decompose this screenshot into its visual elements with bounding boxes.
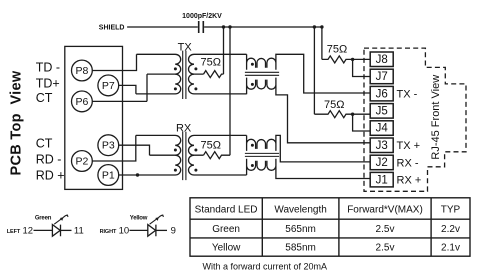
choke RX upper coil and wire RX- to J2 bbox=[247, 135, 371, 162]
svg-text:With a forward current of 20mA: With a forward current of 20mA bbox=[203, 262, 328, 272]
choke RX lower coil and wire RX+ to J1 bbox=[247, 159, 371, 179]
label PCB Top View bbox=[9, 70, 25, 175]
resistor 75ohm TX termination bbox=[204, 71, 224, 78]
wire riser V2 to RX termination bbox=[229, 27, 231, 155]
wire LED D1 cathode bbox=[61, 229, 72, 231]
transformer TX primary lower winding bbox=[136, 74, 181, 94]
polarity dot choke TX lower bbox=[251, 83, 254, 86]
LED D2 pin label RIGHT 10 bbox=[100, 226, 130, 237]
svg-text:RX -: RX - bbox=[397, 157, 419, 169]
svg-text:P2: P2 bbox=[75, 156, 88, 168]
node junction bus-V4 bbox=[320, 25, 323, 28]
net label TX+ bbox=[397, 140, 421, 152]
table header text bbox=[195, 204, 461, 215]
pin P7 bbox=[98, 75, 119, 96]
node junction bus-V1 bbox=[222, 25, 225, 28]
value label 75ohm J5 bbox=[324, 99, 344, 111]
label SHIELD bbox=[99, 25, 125, 32]
svg-text:LEFT: LEFT bbox=[7, 229, 21, 235]
LED D2 arrow bbox=[150, 215, 164, 224]
table LED specifications bbox=[190, 198, 470, 256]
wire P8 to TX primary top bbox=[92, 54, 136, 70]
pin label RD+ bbox=[36, 169, 65, 183]
svg-text:9: 9 bbox=[171, 226, 176, 237]
value label 75ohm RX bbox=[200, 140, 220, 152]
net label RX+ bbox=[397, 175, 422, 187]
pin label TD+ bbox=[36, 76, 60, 90]
svg-text:P7: P7 bbox=[102, 80, 115, 92]
wire P3 to RX primary center tap bbox=[119, 145, 150, 155]
LED D1 pin label 11 bbox=[74, 226, 84, 237]
svg-text:Standard LED: Standard LED bbox=[195, 204, 258, 215]
wire TX primary center tap to P6 bbox=[92, 74, 147, 101]
wire branch to J4 bbox=[353, 114, 371, 131]
polarity dot choke RX upper bbox=[251, 144, 254, 147]
svg-text:565nm: 565nm bbox=[285, 224, 316, 235]
polarity dot RX secondary lower bbox=[194, 169, 197, 172]
polarity dot TX secondary lower bbox=[194, 87, 197, 90]
jack pin J7 bbox=[370, 69, 393, 84]
svg-text:J8: J8 bbox=[376, 54, 388, 66]
choke RX core bbox=[245, 153, 279, 156]
jack pin J3 bbox=[370, 138, 393, 153]
choke TX core bbox=[245, 72, 279, 75]
jack pin J6 bbox=[370, 86, 393, 101]
jack pin J2 bbox=[370, 155, 393, 170]
svg-text:11: 11 bbox=[74, 226, 84, 237]
svg-text:RX +: RX + bbox=[397, 175, 422, 187]
value label 75ohm TX bbox=[200, 57, 220, 69]
svg-text:75Ω: 75Ω bbox=[327, 44, 347, 56]
resistor 75ohm RX termination bbox=[204, 152, 231, 159]
polarity dot TX primary lower bbox=[174, 87, 177, 90]
wire riser V3 to J5 resistor bbox=[313, 27, 315, 114]
polarity dot TX primary upper bbox=[174, 67, 177, 70]
note forward current bbox=[203, 262, 328, 272]
svg-text:J6: J6 bbox=[376, 88, 388, 100]
svg-text:2.5v: 2.5v bbox=[376, 243, 395, 254]
svg-text:P1: P1 bbox=[102, 170, 115, 182]
svg-text:Forward*V(MAX): Forward*V(MAX) bbox=[347, 204, 423, 215]
pin label TD- bbox=[36, 60, 60, 74]
polarity dot choke RX lower bbox=[251, 164, 254, 167]
wire P7 to TX primary bottom bbox=[119, 85, 136, 94]
svg-text:CT: CT bbox=[36, 91, 53, 105]
polarity dot RX primary lower bbox=[174, 169, 177, 172]
node junction bus-V2 bbox=[228, 25, 231, 28]
PCB connector body outline bbox=[65, 46, 123, 189]
wire shield bus left bbox=[127, 26, 198, 28]
svg-text:J1: J1 bbox=[376, 174, 388, 186]
svg-text:J5: J5 bbox=[376, 106, 388, 118]
LED D1 arrow bbox=[54, 215, 68, 224]
LED D1 green: label Green bbox=[35, 216, 52, 222]
svg-text:12: 12 bbox=[23, 226, 34, 237]
transformer RX primary lower winding bbox=[119, 155, 181, 175]
pin label CT (TX) bbox=[36, 91, 53, 105]
svg-text:P3: P3 bbox=[102, 140, 115, 152]
transformer TX secondary upper winding bbox=[189, 54, 247, 74]
svg-text:Green: Green bbox=[212, 224, 240, 235]
value label 75ohm J8 bbox=[327, 44, 347, 56]
svg-text:Wavelength: Wavelength bbox=[274, 204, 326, 215]
node junction J5 resistor bbox=[351, 113, 354, 116]
transformer RX secondary lower winding bbox=[189, 155, 247, 175]
RJ-45 front view dashed outline bbox=[364, 48, 466, 191]
TX core bbox=[183, 51, 186, 99]
svg-text:Yellow: Yellow bbox=[130, 216, 148, 222]
wire branch to J7 bbox=[353, 59, 371, 76]
wire shield bus right bbox=[204, 26, 322, 28]
LED D2 diode symbol bbox=[148, 225, 156, 237]
polarity dot TX secondary upper bbox=[194, 67, 197, 70]
pin P2 bbox=[72, 151, 93, 172]
wire LED D2 anode bbox=[130, 229, 148, 231]
label TX bbox=[178, 41, 193, 53]
wire riser V1 to TX termination bbox=[223, 27, 225, 74]
node junction bus-V3 bbox=[313, 25, 316, 28]
svg-text:10: 10 bbox=[119, 226, 130, 237]
pin P1 bbox=[98, 165, 119, 186]
transformer RX primary upper winding bbox=[136, 135, 181, 155]
svg-text:SHIELD: SHIELD bbox=[99, 25, 125, 32]
svg-text:PCB Top View: PCB Top View bbox=[9, 70, 25, 175]
polarity dot RX primary upper bbox=[174, 149, 177, 152]
svg-text:TD+: TD+ bbox=[36, 76, 60, 90]
svg-text:2.1v: 2.1v bbox=[441, 243, 460, 254]
svg-text:75Ω: 75Ω bbox=[200, 57, 220, 69]
svg-text:J3: J3 bbox=[376, 140, 388, 152]
svg-text:75Ω: 75Ω bbox=[324, 99, 344, 111]
LED D1 pin label LEFT 12 bbox=[7, 226, 33, 237]
choke TX lower coil and wire TX+ to J3 bbox=[247, 78, 371, 143]
resistor 75ohm J8/J7 termination bbox=[322, 56, 370, 63]
capacitor C1 1000pF/2KV bbox=[199, 21, 204, 33]
svg-text:RJ-45 Front View: RJ-45 Front View bbox=[430, 75, 442, 160]
RX core bbox=[183, 132, 186, 180]
svg-text:Green: Green bbox=[35, 216, 52, 222]
svg-text:CT: CT bbox=[36, 137, 53, 151]
pin P8 bbox=[72, 60, 93, 81]
svg-text:RX: RX bbox=[176, 122, 192, 134]
label RJ-45 Front View bbox=[430, 75, 442, 160]
LED D2 yellow: label Yellow bbox=[130, 216, 148, 222]
wire LED D2 cathode bbox=[156, 229, 167, 231]
polarity dot choke TX upper bbox=[251, 63, 254, 66]
pin label CT (RX) bbox=[36, 137, 53, 151]
svg-text:TX: TX bbox=[178, 41, 193, 53]
svg-text:75Ω: 75Ω bbox=[200, 140, 220, 152]
svg-text:TYP: TYP bbox=[441, 204, 461, 215]
table row Green bbox=[212, 224, 460, 235]
svg-text:TX -: TX - bbox=[397, 89, 418, 101]
jack pin J4 bbox=[370, 121, 393, 136]
LED D1 diode symbol bbox=[52, 225, 60, 237]
LED D2 pin label 9 bbox=[171, 226, 176, 237]
choke TX upper coil and wire TX- to J6 bbox=[247, 54, 371, 93]
svg-text:2.2v: 2.2v bbox=[441, 224, 460, 235]
wire riser V4 to J8 resistor bbox=[321, 27, 323, 59]
transformer TX secondary lower winding bbox=[189, 74, 247, 94]
svg-text:P8: P8 bbox=[75, 65, 88, 77]
node junction P1 wire bbox=[136, 173, 139, 176]
label RX bbox=[176, 122, 192, 134]
svg-text:J7: J7 bbox=[376, 71, 388, 83]
pin P3 bbox=[98, 135, 119, 156]
value label 1000pF/2KV bbox=[182, 13, 222, 20]
svg-text:TD -: TD - bbox=[36, 60, 60, 74]
wire P2 to RX primary top bbox=[92, 135, 136, 161]
svg-text:2.5v: 2.5v bbox=[376, 224, 395, 235]
svg-text:P6: P6 bbox=[75, 96, 88, 108]
svg-text:TX +: TX + bbox=[397, 140, 421, 152]
polarity dot RX secondary upper bbox=[194, 149, 197, 152]
jack pin J8 bbox=[370, 52, 393, 67]
resistor 75ohm J5/J4 termination bbox=[314, 111, 370, 118]
svg-text:RD +: RD + bbox=[36, 169, 65, 183]
node junction J8 resistor bbox=[351, 58, 354, 61]
transformer TX primary upper winding bbox=[137, 54, 181, 74]
table row Yellow bbox=[212, 243, 460, 254]
svg-text:RD -: RD - bbox=[36, 152, 62, 166]
svg-text:J2: J2 bbox=[376, 157, 388, 169]
svg-text:585nm: 585nm bbox=[285, 243, 316, 254]
pin label RD- bbox=[36, 152, 62, 166]
svg-text:Yellow: Yellow bbox=[212, 243, 241, 254]
net label TX- bbox=[397, 89, 418, 101]
jack pin J5 bbox=[370, 104, 393, 119]
svg-text:RIGHT: RIGHT bbox=[100, 229, 117, 235]
svg-text:1000pF/2KV: 1000pF/2KV bbox=[182, 13, 222, 20]
net label RX- bbox=[397, 157, 419, 169]
wire LED D1 anode bbox=[34, 229, 53, 231]
jack pin J1 bbox=[370, 172, 393, 187]
pin P6 bbox=[72, 91, 93, 112]
svg-text:J4: J4 bbox=[376, 123, 389, 135]
transformer RX secondary upper winding bbox=[189, 135, 247, 155]
